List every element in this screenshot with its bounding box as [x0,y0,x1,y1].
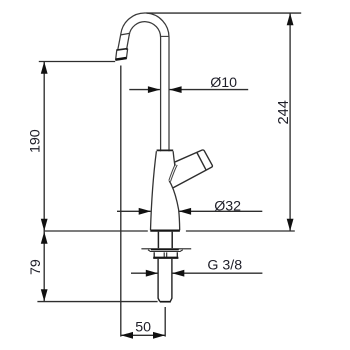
svg-text:50: 50 [135,320,151,336]
body right edge lower (below handle) [169,181,180,230]
dim line 79 [43,231,45,301]
arrow 50 left (left-pointing) [121,332,133,339]
svg-text:Ø10: Ø10 [210,75,237,91]
tangent mark on vertical pipe [161,35,169,37]
arrow G3/8 left (right-pointing) [146,270,158,277]
threaded tailpiece G3/8 [158,259,160,302]
dim line Ø10 left [129,89,160,91]
arrow 79 bottom (down) [41,289,48,301]
arrow 190 bottom (down) [41,219,48,231]
dim line 244 [289,13,291,231]
ext line nozzle vertical (50 reference) [120,66,122,337]
ext line top (244 reference) [147,12,302,14]
svg-text:G 3/8: G 3/8 [207,258,242,274]
ext line outlet level (190 reference) [39,61,115,63]
upper shank below base [157,232,159,249]
tangent mark on nozzle top [121,33,130,35]
body left cone edge [151,151,157,230]
dim line 190 [43,62,45,232]
dim line G3/8 left [131,272,158,274]
ext line mounting surface left [44,230,148,232]
arrow 79 top (up) [41,232,48,244]
nozzle collar top mark [117,49,128,51]
dim line Ø32 left [117,210,151,212]
arrow Ø10 right (left-pointing) [169,86,181,93]
spout inner contour (left edge of pipe + inner bend arc) [129,22,160,151]
arrow G3/8 right (left-pointing) [172,270,184,277]
dim line 50 [121,334,165,336]
ext line axis vertical (50 reference) [164,307,166,337]
body shoulder [157,149,174,151]
svg-text:79: 79 [28,259,44,275]
body right edge upper (above handle) [173,151,175,166]
arrow Ø32 right (left-pointing) [179,208,191,215]
svg-text:190: 190 [27,129,43,153]
flange skirt [148,250,183,252]
nozzle outlet dark end face [116,58,127,60]
flange top disc line (wide) [141,248,191,250]
handle cap line [197,153,206,170]
arrow 244 bottom (down) [287,219,294,231]
svg-text:Ø32: Ø32 [214,199,241,215]
arrow Ø32 left (right-pointing) [139,208,151,215]
hex nut [154,252,177,257]
faucet spout outer contour (gooseneck tube, right/outer edge + nozzle) [116,13,169,151]
arrow Ø10 left (right-pointing) [148,86,160,93]
arrow 190 top (up) [41,62,48,74]
arrow 244 top (up) [287,13,294,25]
handle M1 (lever, filled white over body) [173,150,213,188]
ext line shank bottom (79 reference) [37,301,157,303]
svg-text:244: 244 [276,100,292,124]
ext line mounting surface right [186,230,295,232]
dim line Ø10 right [170,89,249,91]
dim line Ø32 right [179,210,262,212]
base bottom edge (thick) [150,229,180,231]
dim line G3/8 right [172,272,262,274]
arrowheads [41,13,294,339]
handle neck facet lines [169,164,176,181]
arrow 50 right (right-pointing) [153,332,165,339]
dimension graphics [37,13,301,337]
